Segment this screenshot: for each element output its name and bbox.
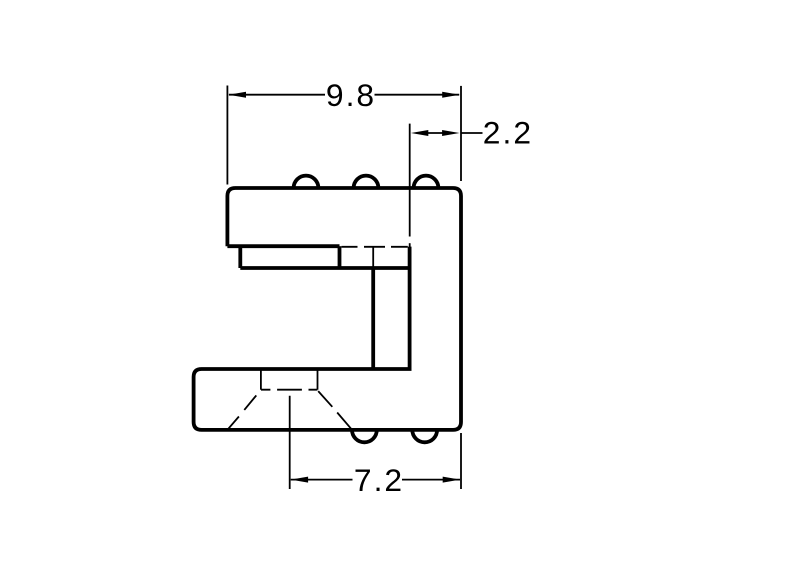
- top bump 2: [354, 176, 379, 188]
- top bump 3: [414, 176, 439, 188]
- svg-text:7.2: 7.2: [354, 462, 404, 498]
- bottom bump 1: [352, 430, 377, 442]
- funnel hidden horizontal dashed edge: [261, 389, 317, 391]
- 9.8 right arrowhead: [442, 92, 459, 98]
- top bump 1: [294, 176, 319, 188]
- 7.2 dimension line left segment: [291, 479, 353, 481]
- 9.8 left extension line: [226, 86, 228, 185]
- svg-text:2.2: 2.2: [483, 115, 533, 151]
- 2.2 leader line to label: [461, 132, 483, 134]
- 7.2 left arrowhead: [291, 477, 308, 483]
- funnel right hidden diagonal (dashed): [318, 391, 352, 430]
- ledge bottom edge: [240, 266, 409, 270]
- 2.2 right arrowhead: [442, 130, 459, 136]
- svg-text:9.8: 9.8: [326, 77, 376, 113]
- 9.8 dimension line right segment: [375, 94, 460, 96]
- hidden edge dashed line (top bar bottom edge): [342, 246, 408, 248]
- step notch right edge: [338, 246, 342, 268]
- inner column left edge: [371, 268, 375, 369]
- step notch left edge: [238, 246, 242, 268]
- 2.2 left extension line: [409, 124, 411, 237]
- 9.8 dimension line left segment: [229, 94, 325, 96]
- 7.2 right extension line: [460, 433, 462, 489]
- 9.8 / 2.2 right extension line: [460, 86, 462, 181]
- 7.2 right arrowhead: [443, 477, 460, 483]
- 2.2 dimension line shaft: [426, 132, 445, 134]
- hidden edge dash (vertical, under 2.2 extension): [409, 243, 411, 247]
- 9.8 left arrowhead: [229, 92, 246, 98]
- centre line of funnel / 7.2 left extension line: [289, 396, 291, 489]
- 2.2 left arrowhead: [411, 130, 428, 136]
- top bar bottom edge (solid part): [227, 244, 339, 248]
- 7.2 dimension line right segment: [402, 479, 460, 481]
- bottom bump 2: [412, 430, 437, 442]
- inner column left edge thin upper part: [372, 247, 374, 268]
- body outer profile: [194, 188, 461, 430]
- funnel right vertical edge: [317, 369, 319, 390]
- funnel left vertical edge: [260, 369, 262, 390]
- funnel left hidden diagonal (dashed): [227, 395, 256, 430]
